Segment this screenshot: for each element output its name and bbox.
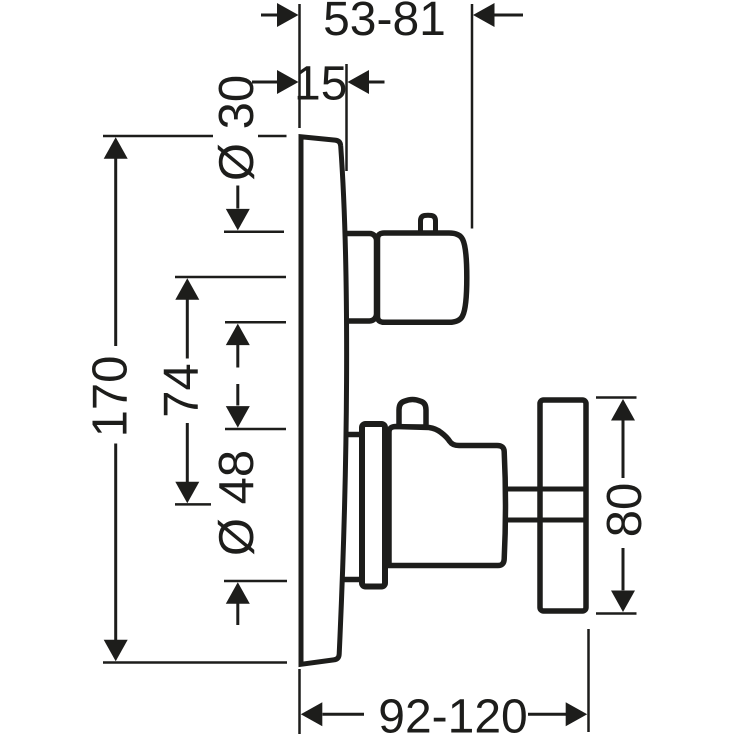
- Ø30 top arrow (down): [236, 186, 239, 209]
- extension line y=136 (plate top level, for 170 / Ø30 text gap): [103, 135, 213, 138]
- upper valve sleeve (rounded rect behind body): [336, 234, 377, 322]
- tick line y=504.4 (74 bottom): [175, 503, 211, 506]
- handle cross bar: [540, 400, 586, 611]
- dim 170 line + arrows: [104, 137, 128, 159]
- upper valve nub: [421, 215, 436, 234]
- extension line y=429 (Ø48 top): [225, 428, 286, 431]
- dim 15 left arrow: [252, 81, 278, 84]
- lower valve nub: [399, 400, 426, 428]
- svg-text:15: 15: [294, 58, 347, 111]
- dim 53-81 left arrow: [261, 14, 278, 17]
- extension line x=588.5 (92-120 right): [587, 629, 590, 732]
- lower valve sleeve ring: [362, 424, 385, 587]
- stem lines between body and bar: [506, 487, 586, 492]
- Ø48 bottom arrow (up): [226, 582, 250, 604]
- dim 92-120 right arrow: [528, 713, 567, 716]
- extension line y=231.8 (Ø30 top): [224, 231, 284, 234]
- wall plate (escutcheon, side view): [301, 137, 347, 665]
- extension line x=299.5 bottom (92-120 left): [298, 669, 301, 734]
- dim 92-120 left arrow: [301, 702, 323, 726]
- dim 15 right arrow: [369, 81, 385, 84]
- svg-text:Ø 30: Ø 30: [210, 75, 264, 181]
- svg-text:92-120: 92-120: [378, 691, 527, 735]
- extension line x=472 (53-81 right): [471, 4, 474, 229]
- upper valve body (thermostat handle): [378, 233, 467, 322]
- dim 80 arrows: [611, 399, 635, 421]
- extension line y=662.5 (bottom, for 170): [103, 661, 287, 664]
- extension line y=277 (74 top, upper axis): [175, 276, 286, 279]
- dim 53-81 right arrow: [494, 14, 523, 17]
- extension line y=581 (Ø48 bottom): [224, 580, 287, 583]
- svg-text:80: 80: [598, 483, 652, 538]
- extension line y=322.3 (Ø30 bottom): [225, 321, 286, 324]
- dim 80 extension lines: [596, 396, 637, 399]
- Ø48 top arrow (down): [236, 384, 239, 406]
- extension line x=299 top (plate front, for 53-81 and 15): [298, 4, 301, 128]
- dim 74 bottom arrow: [186, 423, 189, 482]
- svg-text:74: 74: [155, 363, 209, 418]
- svg-text:53-81: 53-81: [323, 0, 446, 46]
- lower valve body: [389, 427, 506, 566]
- Ø30 bottom arrow (up): [226, 324, 250, 346]
- svg-text:Ø 48: Ø 48: [210, 450, 264, 556]
- dim 74 top arrow: [175, 278, 199, 300]
- svg-text:170: 170: [84, 356, 138, 438]
- extension line x=346.5 (15 right): [345, 64, 348, 171]
- lower hidden cylinder stubs: [336, 435, 362, 580]
